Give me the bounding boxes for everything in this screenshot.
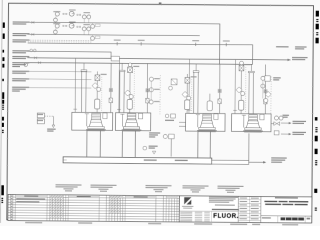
tags right of D bbox=[273, 77, 281, 80]
bag filter train A bbox=[73, 58, 112, 113]
conveyor drop legs bbox=[87, 130, 249, 160]
right top label 1 bbox=[276, 46, 307, 49]
screw conveyor section 2 bbox=[212, 160, 249, 164]
inline unit on header bbox=[111, 56, 119, 61]
casing D side symbols bbox=[271, 122, 280, 135]
small circles row4 bbox=[30, 49, 36, 52]
mid valve station bbox=[169, 79, 177, 90]
screw conveyor C-401 bbox=[63, 157, 212, 164]
bubbles pair right of D bbox=[274, 115, 289, 121]
header H4 label bbox=[292, 57, 308, 60]
instrument cluster row 2 bbox=[53, 21, 100, 40]
header H2 valve ticks bbox=[114, 40, 230, 47]
filter casing A bbox=[72, 112, 113, 131]
page edge bbox=[0, 0, 2, 223]
filter casing D bbox=[232, 114, 272, 133]
bag filter train C bbox=[182, 59, 222, 114]
symbols between casings B-C bbox=[165, 114, 175, 121]
filter casing B bbox=[115, 113, 150, 132]
top center mark bbox=[159, 2, 162, 4]
header H5 bbox=[28, 63, 253, 65]
conveyor outlet bbox=[249, 157, 287, 164]
blower outlet line bbox=[44, 116, 54, 127]
equipment labels bbox=[55, 184, 243, 193]
right margin marks bbox=[314, 11, 319, 211]
right continuation label 2 bbox=[281, 132, 306, 136]
pump bubble left bbox=[24, 63, 28, 67]
header H4 bbox=[28, 58, 291, 60]
header H3b bbox=[28, 51, 112, 58]
header H2 bbox=[28, 34, 200, 35]
header H2b bbox=[28, 43, 253, 64]
bag filter train D bbox=[233, 59, 267, 113]
instrument cluster row 1 bbox=[53, 9, 100, 28]
instrument column mid-left bbox=[149, 77, 160, 104]
aux lines left bbox=[27, 22, 92, 88]
header H1 bbox=[28, 22, 220, 64]
blower K-401 bbox=[37, 113, 56, 132]
vessel above casing C bbox=[207, 94, 212, 111]
svg-text:FLUOR.: FLUOR. bbox=[213, 214, 238, 220]
instrument column right of D bbox=[261, 76, 272, 114]
left margin strip bbox=[0, 208, 1, 222]
texts below border bbox=[25, 222, 298, 226]
signal dash mid bbox=[159, 75, 161, 114]
revision table bbox=[8, 194, 180, 222]
casing C inlet stub bbox=[179, 122, 186, 126]
conveyor drive group bbox=[143, 146, 158, 155]
header H3 dashed bbox=[28, 40, 92, 42]
pipe line labels left bbox=[12, 21, 30, 91]
bag filter train B bbox=[117, 59, 149, 113]
filter casing C bbox=[186, 113, 226, 132]
inline valves left bbox=[31, 21, 42, 63]
title block bbox=[179, 196, 312, 223]
left margin marks bbox=[1, 22, 5, 203]
header H4 arrow bbox=[288, 59, 291, 61]
rotary valve group mid bbox=[149, 132, 174, 156]
right continuation label 1 bbox=[281, 121, 306, 125]
